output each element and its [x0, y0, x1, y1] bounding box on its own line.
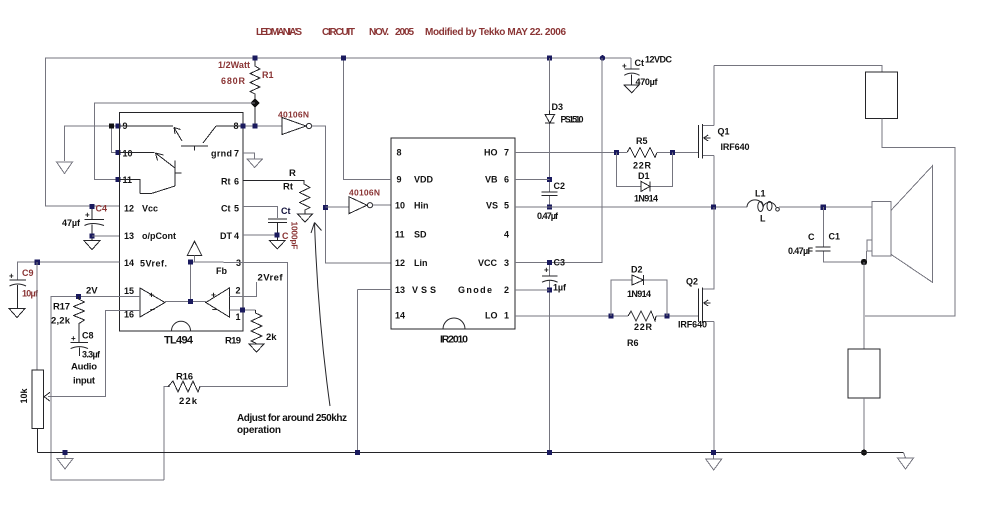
svg-text:Lin: Lin	[414, 258, 428, 268]
svg-text:1N914: 1N914	[634, 194, 658, 204]
svg-text:2Vref: 2Vref	[258, 273, 284, 284]
svg-text:7: 7	[504, 148, 509, 158]
svg-text:Ct: Ct	[281, 206, 291, 216]
svg-text:TL494: TL494	[164, 335, 194, 347]
svg-text:8: 8	[397, 148, 402, 158]
svg-text:C3: C3	[554, 258, 566, 268]
svg-text:11: 11	[395, 230, 405, 240]
svg-text:2k: 2k	[266, 332, 277, 343]
svg-text:5: 5	[234, 204, 239, 214]
svg-text:0.47µf: 0.47µf	[537, 211, 559, 221]
svg-text:VCC: VCC	[478, 258, 498, 268]
svg-text:+: +	[85, 211, 90, 220]
svg-text:L: L	[760, 214, 766, 224]
svg-text:VS: VS	[486, 201, 498, 211]
svg-text:Rt: Rt	[283, 182, 294, 193]
svg-text:−: −	[150, 305, 155, 315]
svg-text:Q1: Q1	[718, 127, 730, 137]
svg-text:VDD: VDD	[414, 175, 434, 185]
svg-text:HO: HO	[484, 148, 498, 158]
svg-text:+: +	[622, 62, 627, 71]
svg-text:5: 5	[504, 201, 509, 211]
svg-text:40106N: 40106N	[278, 110, 309, 120]
svg-text:−: −	[212, 305, 217, 315]
svg-text:L1: L1	[755, 189, 766, 199]
svg-text:C: C	[808, 232, 815, 242]
svg-text:3: 3	[504, 258, 509, 268]
svg-text:R17: R17	[53, 302, 70, 313]
svg-text:1000pF: 1000pF	[290, 222, 300, 250]
svg-text:13: 13	[124, 231, 134, 241]
svg-text:+: +	[71, 334, 76, 343]
svg-text:+: +	[9, 272, 14, 281]
svg-text:1N914: 1N914	[627, 289, 651, 299]
svg-text:10: 10	[123, 149, 133, 159]
svg-text:2: 2	[236, 286, 241, 296]
svg-text:D1: D1	[638, 171, 650, 181]
svg-text:LEDMANIA'S: LEDMANIA'S	[256, 27, 302, 38]
svg-text:NOV.: NOV.	[369, 27, 389, 38]
svg-text:IR2010: IR2010	[440, 334, 468, 346]
svg-text:Adjust for around 250khz: Adjust for around 250khz	[237, 413, 347, 424]
svg-text:PS1510: PS1510	[561, 115, 584, 125]
svg-text:C2: C2	[554, 181, 566, 191]
svg-text:R: R	[289, 168, 296, 179]
svg-text:R1: R1	[262, 70, 274, 80]
svg-text:4: 4	[234, 231, 239, 241]
svg-text:input: input	[73, 376, 96, 387]
svg-text:C8: C8	[82, 331, 94, 341]
svg-text:R16: R16	[176, 372, 193, 383]
svg-text:22R: 22R	[633, 161, 652, 171]
svg-text:VSS: VSS	[412, 285, 436, 295]
svg-text:CIRCUIT: CIRCUIT	[322, 27, 355, 38]
svg-text:0.47µF: 0.47µF	[788, 246, 814, 256]
svg-text:6: 6	[234, 177, 239, 187]
svg-text:Vcc: Vcc	[142, 204, 158, 214]
svg-text:SD: SD	[414, 230, 427, 240]
svg-text:12: 12	[124, 204, 134, 214]
svg-text:Q2: Q2	[686, 277, 698, 287]
svg-text:13: 13	[395, 285, 405, 295]
svg-text:3.3µf: 3.3µf	[82, 350, 101, 360]
svg-text:1µf: 1µf	[553, 283, 567, 293]
svg-text:C1: C1	[829, 232, 841, 242]
svg-text:47µf: 47µf	[62, 218, 81, 228]
svg-text:2005: 2005	[395, 27, 414, 38]
svg-text:15: 15	[124, 286, 134, 296]
svg-text:grnd: grnd	[211, 149, 232, 159]
svg-text:D2: D2	[631, 265, 643, 275]
svg-text:o/pCont: o/pCont	[142, 231, 176, 241]
svg-text:R6: R6	[627, 338, 639, 348]
svg-text:IRF640: IRF640	[721, 142, 750, 152]
svg-text:1: 1	[504, 311, 509, 321]
svg-text:10k: 10k	[19, 388, 29, 404]
svg-text:14: 14	[395, 311, 405, 321]
svg-text:+: +	[544, 266, 549, 275]
svg-text:1: 1	[236, 312, 241, 322]
svg-text:R5: R5	[636, 136, 648, 146]
svg-text:Gnode: Gnode	[458, 285, 492, 295]
svg-text:VB: VB	[485, 175, 498, 185]
svg-text:7: 7	[234, 149, 239, 159]
svg-text:Fb: Fb	[216, 266, 227, 276]
svg-text:2V: 2V	[86, 286, 98, 297]
svg-text:22k: 22k	[179, 396, 198, 407]
svg-text:C9: C9	[22, 268, 34, 278]
svg-text:12VDC: 12VDC	[645, 55, 673, 65]
svg-text:3: 3	[236, 258, 241, 268]
svg-text:C: C	[282, 231, 289, 241]
svg-text:DT: DT	[220, 231, 232, 241]
svg-text:IRF640: IRF640	[678, 320, 707, 330]
svg-text:LO: LO	[485, 311, 498, 321]
svg-text:14: 14	[124, 258, 134, 268]
svg-text:10: 10	[395, 201, 405, 211]
svg-text:1/2Watt: 1/2Watt	[218, 60, 250, 70]
svg-text:Ct: Ct	[635, 58, 645, 68]
svg-text:680R: 680R	[221, 76, 246, 86]
svg-text:+: +	[149, 290, 154, 300]
svg-text:Modified by Tekko MAY 22. 2006: Modified by Tekko MAY 22. 2006	[425, 27, 566, 38]
svg-text:Rt: Rt	[221, 177, 231, 187]
svg-text:9: 9	[397, 175, 402, 185]
svg-text:Ct: Ct	[221, 204, 231, 214]
svg-text:2: 2	[504, 285, 509, 295]
svg-text:5Vref.: 5Vref.	[140, 259, 167, 269]
svg-text:22R: 22R	[634, 322, 653, 332]
svg-text:12: 12	[395, 258, 405, 268]
svg-text:40106N: 40106N	[349, 188, 380, 198]
svg-text:C4: C4	[96, 204, 108, 214]
svg-text:11: 11	[123, 175, 133, 185]
svg-text:operation: operation	[237, 425, 281, 436]
svg-text:+: +	[211, 290, 216, 300]
svg-text:Hin: Hin	[414, 201, 429, 211]
svg-text:4: 4	[504, 230, 509, 240]
svg-text:16: 16	[124, 310, 134, 320]
svg-text:D3: D3	[552, 102, 564, 112]
svg-text:Audio: Audio	[71, 362, 97, 373]
svg-text:R19: R19	[225, 336, 241, 347]
svg-text:10µf: 10µf	[22, 289, 39, 299]
svg-text:2,2k: 2,2k	[51, 316, 71, 327]
svg-text:6: 6	[504, 175, 509, 185]
